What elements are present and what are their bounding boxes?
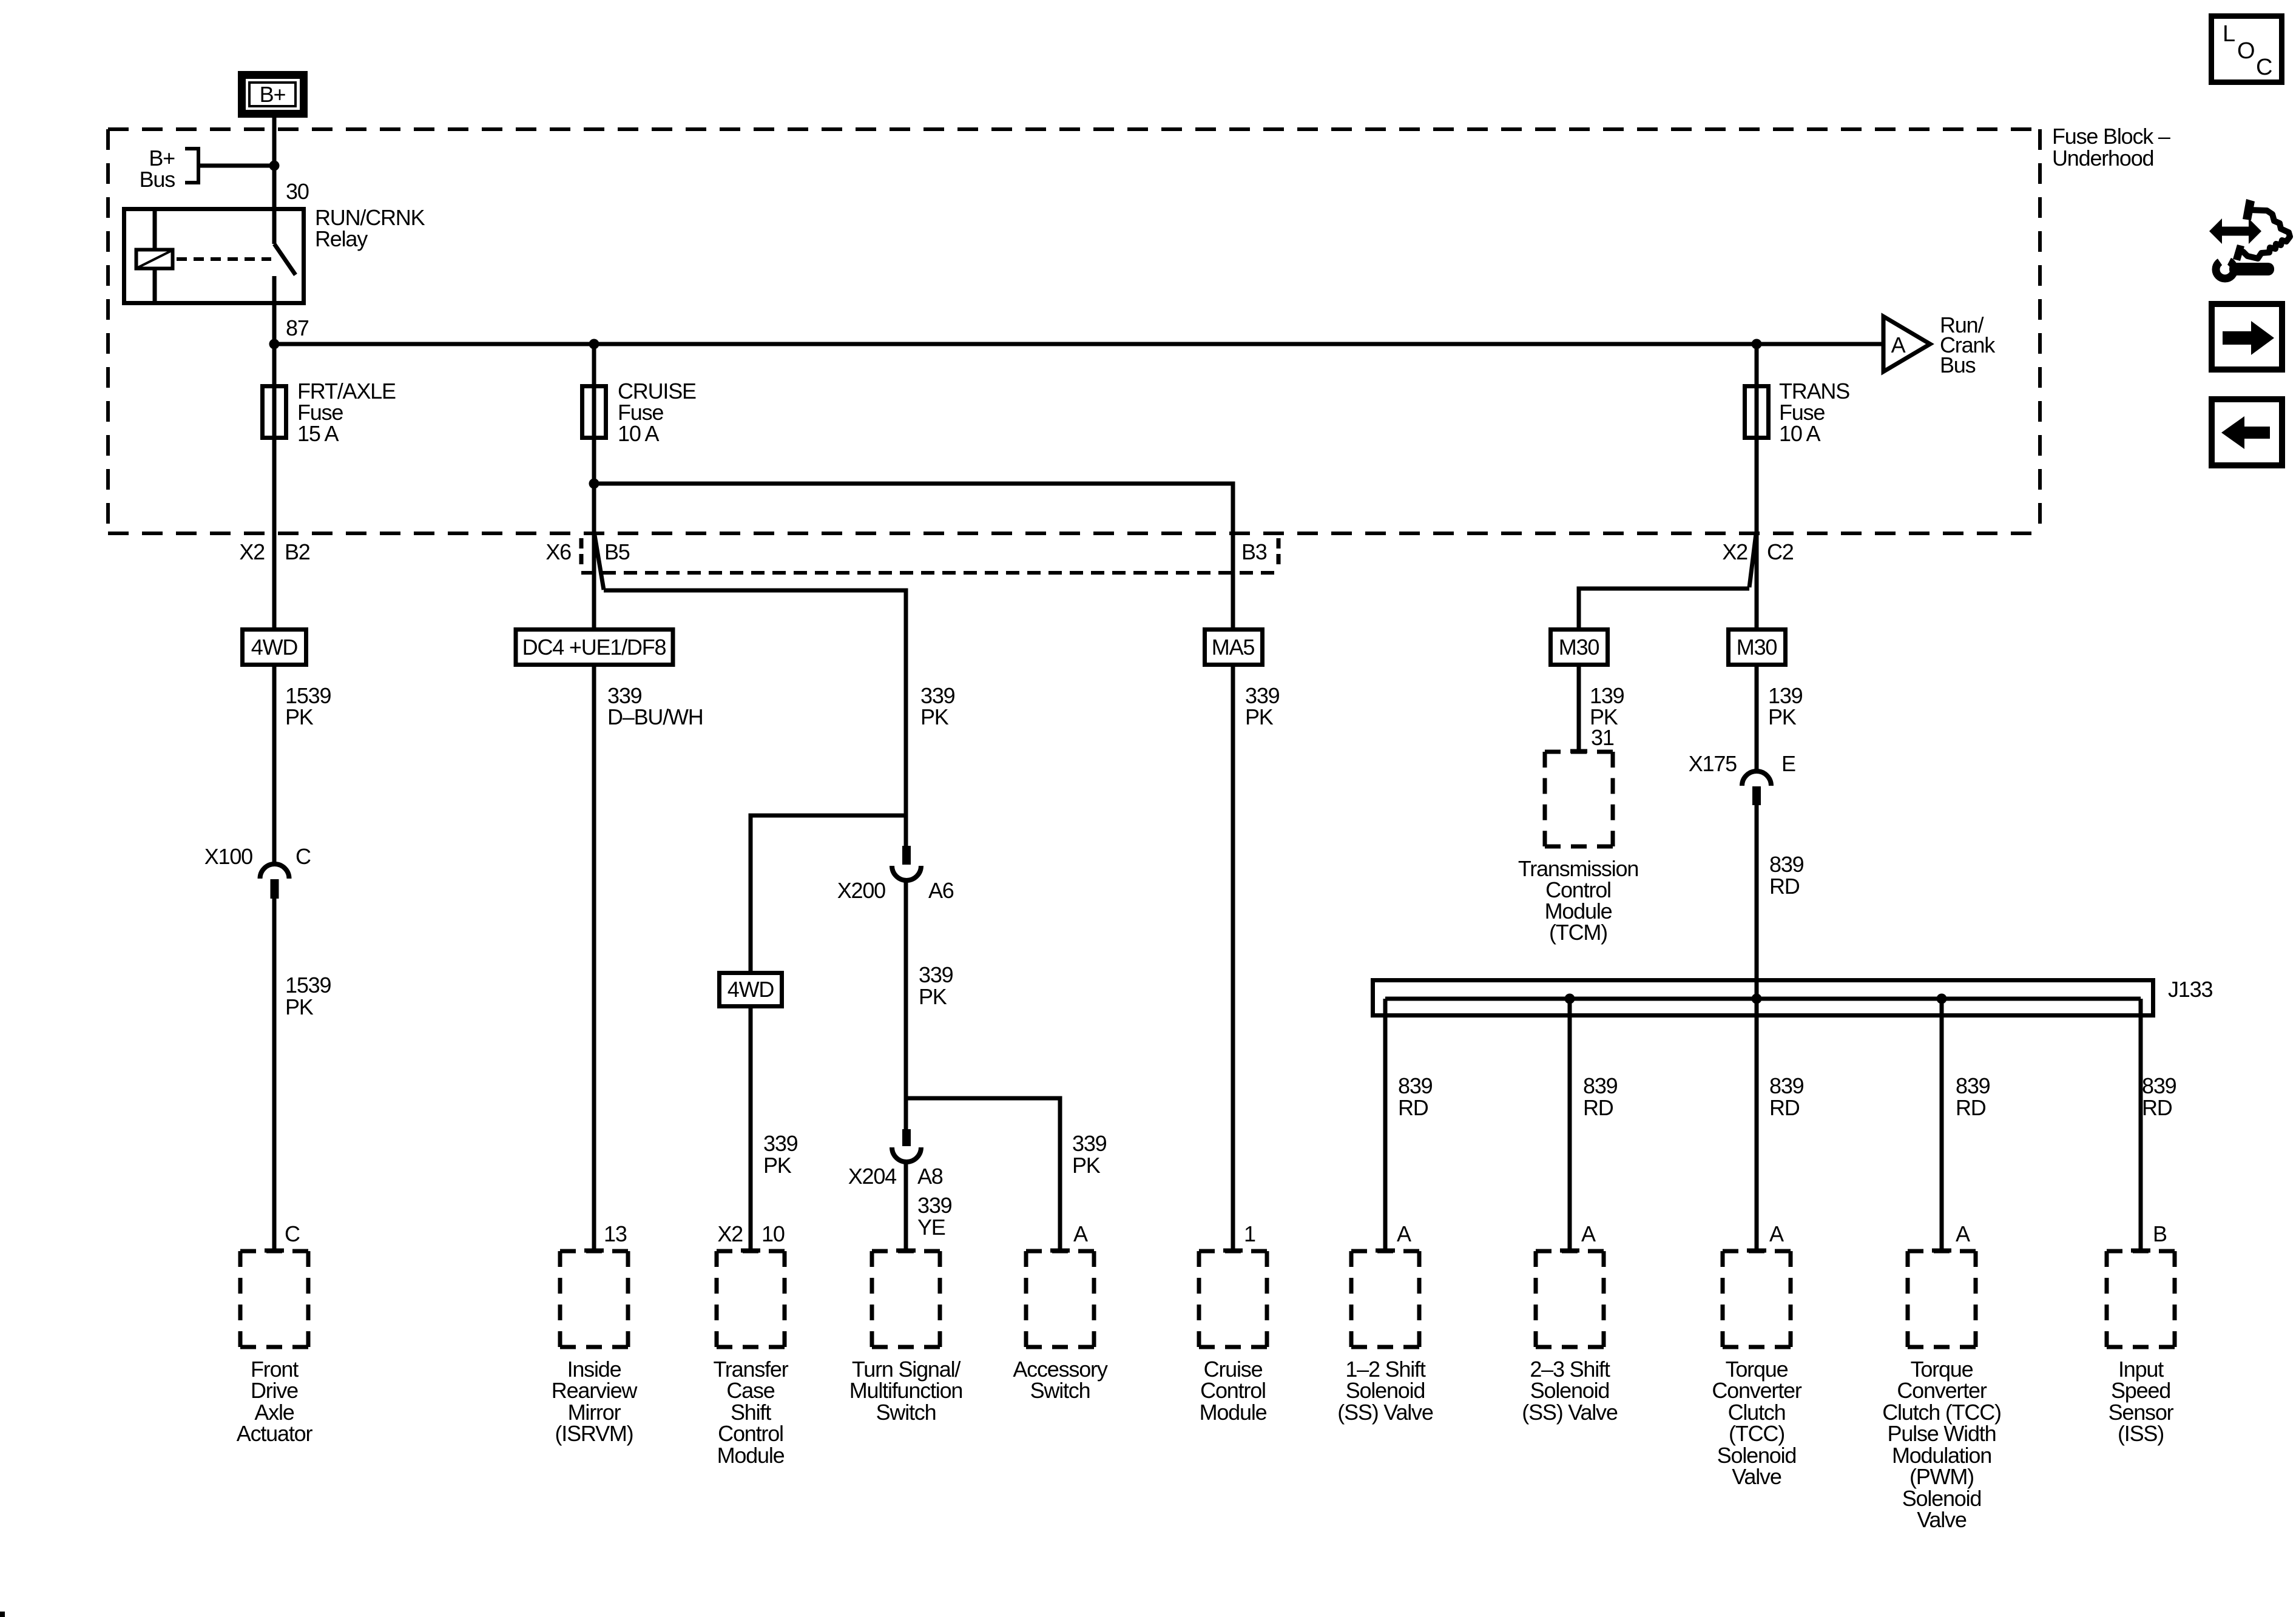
svg-text:PK: PK (1768, 704, 1797, 729)
forward arrow box (2212, 304, 2282, 370)
svg-text:87: 87 (286, 316, 309, 340)
front drive axle actuator label (237, 1357, 313, 1446)
svg-text:PK: PK (763, 1153, 792, 1178)
svg-text:10 A: 10 A (618, 421, 659, 446)
svg-text:B3: B3 (1241, 539, 1267, 564)
wire B+ to relay pin 30 (272, 115, 277, 209)
run/crank bus off-page triangle A (1883, 317, 1930, 372)
turn signal multifunction switch label (849, 1357, 963, 1425)
svg-text:M30: M30 (1737, 635, 1777, 660)
junction J133 2-3 shift (1565, 994, 1575, 1004)
wire relay pin 87 down to run/crank bus (272, 303, 277, 344)
wire X175 down to J133 (1755, 805, 1759, 999)
svg-text:(SS) Valve: (SS) Valve (1522, 1400, 1618, 1425)
svg-text:A8: A8 (917, 1164, 943, 1189)
svg-text:15 A: 15 A (297, 421, 339, 446)
svg-text:M30: M30 (1559, 635, 1599, 660)
svg-text:Fuse Block –: Fuse Block – (2052, 124, 2170, 149)
svg-text:Case: Case (726, 1378, 774, 1403)
svg-text:RD: RD (1769, 1095, 1800, 1120)
TRANS fuse (1745, 387, 1769, 438)
svg-text:Control: Control (718, 1421, 783, 1446)
tcc pwm solenoid valve label (1882, 1357, 2001, 1532)
svg-text:RD: RD (2142, 1095, 2172, 1120)
transmission control module dashed box (1545, 751, 1613, 846)
svg-text:O: O (2237, 38, 2254, 64)
inside rearview mirror label (552, 1357, 638, 1446)
svg-text:X100: X100 (204, 844, 252, 869)
1-2 shift solenoid label (1337, 1357, 1433, 1425)
transfer case shift control module dashed box (717, 1251, 785, 1347)
wire 4WD tag down to transfer case module (749, 1006, 753, 1251)
wire FRT/AXLE fuse column (272, 344, 277, 627)
junction trans fuse tap (1752, 339, 1762, 349)
svg-text:PK: PK (920, 704, 949, 729)
svg-text:RD: RD (1398, 1095, 1428, 1120)
svg-text:1539: 1539 (285, 973, 331, 998)
svg-text:Solenoid: Solenoid (1530, 1378, 1610, 1403)
wire to left M30 (1579, 589, 1749, 627)
svg-text:839: 839 (1398, 1073, 1433, 1098)
wire label 339 PK accessory (1072, 1131, 1107, 1178)
svg-text:4WD: 4WD (251, 635, 298, 660)
svg-text:339: 339 (1072, 1131, 1107, 1156)
svg-text:10 A: 10 A (1779, 421, 1820, 446)
accessory switch dashed box (1026, 1251, 1094, 1347)
svg-text:X200: X200 (837, 878, 885, 903)
svg-text:B+: B+ (260, 82, 286, 107)
svg-text:A: A (1891, 333, 1906, 357)
svg-text:839: 839 (1956, 1073, 1990, 1098)
accessory switch label (1013, 1357, 1107, 1403)
turn signal multifunction switch dashed box (872, 1251, 940, 1347)
connector X175 E (1689, 751, 1795, 805)
in-line harness connector dashed band B5 to B3 (581, 538, 1278, 573)
wire DC4 down to ISRVM (592, 664, 596, 1251)
svg-text:A: A (1956, 1221, 1970, 1246)
svg-text:Module: Module (717, 1443, 785, 1468)
wire left M30 down to TCM (1577, 664, 1581, 752)
junction B+ bus (269, 161, 280, 171)
wire cruise to B3 connector (594, 484, 1233, 627)
svg-text:Relay: Relay (315, 226, 368, 251)
wire X2 C2 slant branch (1749, 534, 1756, 587)
right M30 tag box (1729, 630, 1786, 665)
wire J133 to TCC solenoid (1755, 999, 1759, 1251)
adjust pointer hand icon (2209, 199, 2290, 279)
FRT/AXLE fuse label (297, 379, 396, 446)
wire label 339 PK turn signal feed (920, 683, 955, 729)
svg-text:PK: PK (285, 994, 314, 1019)
MA5 tag box (1205, 630, 1263, 665)
LOC legend box (2212, 16, 2282, 83)
svg-text:B: B (2153, 1221, 2167, 1246)
cruise control module label (1200, 1357, 1267, 1425)
svg-text:RD: RD (1583, 1095, 1613, 1120)
svg-text:X2: X2 (239, 539, 265, 564)
wire label 839 RD main (1769, 852, 1804, 899)
wire branch to accessory switch (906, 1098, 1060, 1251)
svg-text:339: 339 (919, 962, 953, 987)
svg-text:PK: PK (1072, 1153, 1101, 1178)
wire right M30 down to X175 (1755, 664, 1759, 772)
splice pack J133 (1373, 977, 2213, 1016)
wire X200 down to X204 (904, 880, 908, 1130)
front drive axle actuator dashed box (240, 1251, 308, 1347)
B+ Bus tap bracket (185, 147, 200, 184)
pin label X2 10 transfer case (717, 1221, 784, 1246)
svg-text:PK: PK (285, 704, 314, 729)
svg-text:Underhood: Underhood (2052, 146, 2153, 170)
run/crank bus wire (274, 342, 1883, 346)
svg-text:Switch: Switch (1030, 1378, 1090, 1403)
junction cruise branch to B3 (589, 479, 599, 489)
svg-text:A: A (1397, 1221, 1411, 1246)
CRUISE fuse label (618, 379, 696, 446)
svg-text:X204: X204 (848, 1164, 896, 1189)
2-3 shift solenoid dashed box (1536, 1251, 1604, 1347)
svg-text:YE: YE (917, 1215, 945, 1240)
svg-text:10: 10 (761, 1221, 785, 1246)
svg-text:Solenoid: Solenoid (1346, 1378, 1425, 1403)
svg-text:A: A (1769, 1221, 1784, 1246)
inside rearview mirror dashed box (560, 1251, 628, 1347)
4WD front axle fuse tag box (243, 630, 306, 665)
svg-text:(ISS): (ISS) (2118, 1421, 2164, 1446)
wire 4WD box down to X100 (272, 664, 277, 865)
junction J133 pwm (1937, 994, 1947, 1004)
svg-text:J133: J133 (2168, 977, 2212, 1002)
connector X100 C (204, 844, 311, 899)
svg-text:Pulse Width: Pulse Width (1888, 1421, 1996, 1446)
svg-text:C: C (2256, 55, 2272, 80)
wire label 839 RD branch 1 (1398, 1073, 1433, 1120)
svg-text:(SS) Valve: (SS) Valve (1337, 1400, 1433, 1425)
2-3 shift solenoid label (1522, 1357, 1618, 1425)
svg-text:Valve: Valve (1732, 1464, 1781, 1489)
wire label 139 PK left (1590, 683, 1624, 729)
svg-text:X2: X2 (717, 1221, 743, 1246)
svg-text:Converter: Converter (1897, 1378, 1987, 1403)
input speed sensor dashed box (2107, 1251, 2175, 1347)
svg-text:Speed: Speed (2111, 1378, 2170, 1403)
svg-text:B5: B5 (604, 539, 630, 564)
svg-text:13: 13 (604, 1221, 627, 1246)
tcc pwm solenoid valve dashed box (1908, 1251, 1976, 1347)
wire MA5 down to cruise control module (1231, 664, 1235, 1251)
svg-text:Valve: Valve (1917, 1507, 1967, 1532)
wire label 839 RD branch 3 (1769, 1073, 1804, 1120)
wire J133 to input speed sensor (2139, 999, 2143, 1251)
svg-text:339: 339 (763, 1131, 798, 1156)
svg-text:RD: RD (1769, 874, 1800, 899)
svg-text:E: E (1781, 751, 1795, 776)
svg-text:30: 30 (286, 179, 309, 204)
transfer case 4WD fuse tag box (720, 973, 782, 1007)
back arrow box (2212, 399, 2282, 465)
wire TRANS fuse column (1755, 344, 1759, 627)
svg-text:339: 339 (917, 1193, 952, 1218)
svg-text:Actuator: Actuator (237, 1421, 313, 1446)
wire label 339 PK below X200 (919, 962, 953, 1009)
tcc solenoid valve label (1712, 1357, 1801, 1489)
RUN/CRNK relay (124, 209, 304, 303)
svg-text:Bus: Bus (140, 167, 175, 192)
wire label 339 PK cruise (1245, 683, 1280, 729)
svg-text:(TCM): (TCM) (1549, 920, 1607, 945)
wire label 839 RD branch 5 (2142, 1073, 2176, 1120)
svg-text:X6: X6 (545, 539, 571, 564)
svg-text:Module: Module (1200, 1400, 1267, 1425)
1-2 shift solenoid dashed box (1351, 1251, 1419, 1347)
fuse block underhood dashed box (108, 129, 2040, 533)
wire label 839 RD branch 2 (1583, 1073, 1618, 1120)
svg-text:(ISRVM): (ISRVM) (555, 1421, 633, 1446)
relay name label (315, 205, 425, 251)
svg-text:839: 839 (1769, 852, 1804, 877)
svg-text:Rearview: Rearview (552, 1378, 638, 1403)
svg-text:A: A (1073, 1221, 1088, 1246)
svg-text:Multifunction: Multifunction (849, 1378, 963, 1403)
svg-text:DC4 +UE1/DF8: DC4 +UE1/DF8 (522, 635, 666, 660)
fuse block name label (2052, 124, 2170, 170)
svg-text:Drive: Drive (251, 1378, 298, 1403)
svg-text:839: 839 (2142, 1073, 2176, 1098)
svg-text:Control: Control (1200, 1378, 1266, 1403)
svg-text:MA5: MA5 (1212, 635, 1255, 660)
junction at pin 87 (269, 339, 280, 349)
svg-text:B2: B2 (285, 539, 310, 564)
svg-text:4WD: 4WD (728, 977, 774, 1002)
TRANS fuse label (1779, 379, 1849, 446)
wire label 339 PK transfer (763, 1131, 798, 1178)
svg-text:X175: X175 (1689, 751, 1737, 776)
input speed sensor label (2109, 1357, 2174, 1446)
connector X6 B5 labels (545, 539, 629, 564)
run/crank bus label (1940, 312, 1996, 377)
svg-text:(TCC): (TCC) (1729, 1421, 1784, 1446)
wire B5 branch to turn signal feed (604, 590, 906, 846)
svg-text:X2: X2 (1722, 539, 1747, 564)
svg-text:Bus: Bus (1940, 353, 1976, 377)
svg-text:1: 1 (1244, 1221, 1255, 1246)
DC4 +UE1/DF8 tag box (516, 630, 673, 665)
left M30 tag box (1551, 630, 1608, 665)
wire CRUISE fuse column (592, 344, 596, 627)
connector X2 B2 labels (239, 539, 309, 564)
svg-text:PK: PK (919, 984, 947, 1009)
tcc solenoid valve dashed box (1723, 1251, 1791, 1347)
svg-text:L: L (2223, 21, 2235, 47)
svg-text:A: A (1581, 1221, 1596, 1246)
wire X100 to front axle actuator (272, 899, 277, 1251)
connector X204 A8 (848, 1129, 943, 1189)
wire branch to transfer case 4WD fuse tap (751, 815, 906, 971)
svg-text:RD: RD (1956, 1095, 1986, 1120)
page corner mark (0, 1612, 5, 1617)
svg-text:A6: A6 (928, 878, 954, 903)
TCM label (1518, 856, 1638, 945)
wire J133 to 1-2 shift solenoid (1383, 999, 1388, 1251)
svg-text:839: 839 (1583, 1073, 1618, 1098)
svg-text:839: 839 (1769, 1073, 1804, 1098)
svg-text:Switch: Switch (876, 1400, 936, 1425)
wire J133 to 2-3 shift solenoid (1568, 999, 1572, 1251)
B+ terminal box (242, 75, 304, 114)
transfer case shift control module label (713, 1357, 788, 1468)
svg-text:(PWM): (PWM) (1909, 1464, 1974, 1489)
junction J133 tcc (1752, 994, 1762, 1004)
svg-text:PK: PK (1245, 704, 1274, 729)
svg-text:C: C (285, 1221, 300, 1246)
connector X2 C2 labels (1722, 539, 1793, 564)
wire label 1539 PK lower (285, 973, 331, 1019)
B+ Bus label (140, 146, 175, 192)
wire J133 to TCC PWM solenoid (1940, 999, 1944, 1251)
svg-text:31: 31 (1591, 725, 1614, 750)
CRUISE fuse (582, 387, 606, 438)
wire label 1539 PK upper (285, 683, 331, 729)
wire label 339 D-BU/WH (607, 683, 703, 729)
svg-text:Converter: Converter (1712, 1378, 1801, 1403)
svg-text:C2: C2 (1767, 539, 1794, 564)
junction cruise fuse tap (589, 339, 599, 349)
connector X200 A6 (837, 846, 954, 903)
wire label 839 RD branch 4 (1956, 1073, 1990, 1120)
wire B+ bus to main feed (200, 164, 274, 168)
wire B5 slant branch (595, 535, 604, 590)
FRT/AXLE fuse (263, 387, 286, 438)
wire label 339 YE (917, 1193, 952, 1240)
wire X204 down to turn signal switch (904, 1162, 908, 1251)
cruise control module dashed box (1199, 1251, 1267, 1347)
wire label 139 PK right (1768, 683, 1803, 729)
svg-text:D–BU/WH: D–BU/WH (607, 704, 703, 729)
svg-text:C: C (295, 844, 311, 869)
